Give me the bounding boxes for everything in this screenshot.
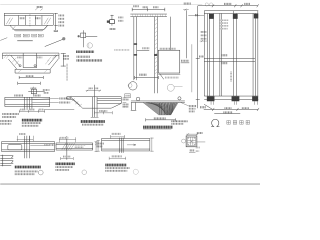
- detail A2 left block: [67, 97, 83, 108]
- elevation E1 slab: [130, 14, 167, 17]
- plan P stubs below bottom wall: [211, 101, 257, 105]
- section S2 bottom band: [15, 69, 50, 73]
- detail K hatch: [143, 103, 178, 115]
- detail B2 top dim: [59, 137, 76, 142]
- sheet bottom border: [0, 183, 260, 185]
- plan P interior text block: [219, 19, 229, 21]
- detail B2 inner texts: [75, 144, 86, 146]
- detail K trough outline: [143, 102, 178, 114]
- detail A2 boxed mark right: [125, 94, 131, 98]
- detail K top lines: [131, 101, 185, 103]
- section S2 top band: [2, 53, 59, 59]
- plan P corner columns bottom: [207, 96, 215, 101]
- elevation E1 leader below plate: [160, 74, 164, 80]
- plan P mid band: [204, 58, 255, 61]
- callout leader ball: [62, 37, 65, 40]
- detail B1 ladder: [0, 155, 13, 167]
- small detail S1a label: [110, 28, 116, 30]
- section S1 weld mark: [17, 40, 33, 42]
- plan P level text left of band: [199, 55, 205, 57]
- detail B3 bottom dim: [109, 157, 126, 160]
- elevation E1 column dim: [135, 76, 159, 79]
- detail A1 center verticals: [24, 97, 32, 110]
- detail A1 beam: [5, 97, 50, 106]
- detail A1 left texts: [2, 113, 19, 115]
- detail A1 bottom dim: [19, 110, 45, 113]
- section S1 boxed dim labels: [15, 34, 44, 37]
- elevation E1 vertical a: [170, 17, 172, 51]
- section S1 panel dividers: [19, 15, 42, 25]
- section S1 centerline: [29, 14, 31, 26]
- elevation E1 slab studs: [133, 14, 166, 17]
- detail B2 hatch: [62, 143, 75, 150]
- elevation E1 left column: [134, 17, 137, 81]
- small detail S2 anchor: [81, 33, 86, 38]
- elevation E1 hatched column: [155, 17, 158, 94]
- section S2 notch: [23, 53, 37, 68]
- detail B3 beam: [102, 138, 150, 151]
- elevation E1 vertical c: [191, 44, 193, 92]
- detail K top circles: [136, 97, 140, 101]
- plan P top wall: [204, 11, 258, 14]
- section S2 label: [76, 51, 94, 54]
- detail B1 top dim: [19, 133, 26, 135]
- section S2 dim 2: [18, 82, 41, 85]
- section S1 panel texts: [20, 17, 25, 19]
- section S1 hatch: [6, 18, 51, 30]
- detail A2 label: [81, 120, 105, 123]
- datum line to plan: [188, 15, 204, 17]
- plan P bottom wall: [204, 96, 258, 99]
- elevation E1 level mark: [181, 60, 189, 62]
- small detail S2 bubble: [87, 43, 92, 48]
- detail B2 right dim: [95, 141, 98, 152]
- detail A1 top texts: [14, 94, 23, 96]
- section S1 top dim text: [37, 6, 43, 8]
- section S2 rebar circles: [19, 65, 21, 67]
- detail B1 body: [2, 142, 55, 152]
- plan P vertical text: [230, 72, 232, 82]
- section S1 trough bottom: [10, 25, 48, 31]
- detail B3 right dim: [150, 138, 153, 152]
- detail A2 bottom dim: [91, 111, 113, 117]
- detail A2 stub above: [94, 85, 96, 97]
- detail A1 lower-left texts: [0, 120, 12, 122]
- detail K left support: [131, 102, 137, 110]
- detail B3 left dim: [97, 140, 100, 151]
- plan P corner columns top: [209, 14, 214, 19]
- faint text row: [114, 49, 129, 51]
- section S2 vertical text column: [66, 64, 68, 81]
- detail C2 dim text: [197, 132, 203, 134]
- callout leader line: [45, 39, 63, 46]
- section S1 right dim chain: [54, 13, 58, 31]
- axis bubbles above plan: [205, 3, 208, 6]
- detail C2 circle mark: [182, 139, 186, 143]
- elevation E1 plate rect: [158, 50, 180, 73]
- detail B2 centerline: [66, 136, 68, 160]
- detail A2 top line: [67, 96, 122, 98]
- detail B3 top dim: [112, 133, 121, 135]
- elevation E1 text above plate: [160, 48, 176, 50]
- detail C2 column section: [186, 136, 197, 147]
- detail A1 leaders: [32, 98, 59, 102]
- section S2 right dim: [61, 53, 66, 66]
- detail K right leader: [181, 103, 189, 106]
- detail C2 label: [190, 149, 195, 151]
- detail B2 bottom dim: [61, 157, 74, 160]
- detail A2 right block: [82, 97, 121, 108]
- elevation E1 section circle: [167, 84, 174, 91]
- section S2 hatch: [4, 54, 58, 73]
- elevation E1 top dim: [132, 8, 165, 12]
- plan P bottom dim 2: [214, 113, 240, 115]
- section S2 band texts: [17, 56, 22, 58]
- detail C2 leader: [197, 141, 205, 143]
- plan P wall verticals: [204, 11, 258, 96]
- detail B2 beam: [56, 143, 93, 150]
- plan P left dim line: [196, 6, 200, 109]
- plan P top dim: [198, 4, 259, 7]
- plan P title: [227, 121, 250, 125]
- detail A2 right dims: [123, 98, 127, 107]
- elevation E1 tie line: [137, 49, 149, 51]
- detail B3 center verticals: [119, 138, 123, 153]
- detail K leader text: [171, 120, 187, 122]
- detail K bottom dim: [146, 118, 176, 121]
- section S2 slopes: [8, 55, 58, 69]
- plan P omega symbol: [211, 119, 219, 126]
- detail K label: [143, 126, 173, 129]
- detail B2 label: [55, 162, 74, 165]
- plan P bottom dim 1: [204, 108, 259, 111]
- callout circle near K: [128, 83, 132, 87]
- elevation E1 vertical b: [185, 10, 187, 58]
- elevation E1 right dim text: [184, 2, 191, 4]
- detail B1 label: [15, 166, 41, 169]
- detail B3 label: [105, 164, 126, 167]
- faint top line: [0, 4, 202, 6]
- break mark left edge: [0, 38, 7, 41]
- ground line right of A1: [44, 109, 75, 111]
- section S1 slab band: [4, 13, 53, 25]
- plan P left dim text stack: [201, 31, 207, 33]
- detail B1 verticals: [24, 136, 29, 159]
- plan P bottom leader: [204, 104, 213, 109]
- detail C2 side texts: [196, 147, 200, 149]
- small detail S3 cross: [28, 87, 45, 97]
- detail A2 center column: [92, 97, 97, 118]
- detail A1 label: [22, 119, 42, 122]
- detail B3 arrow: [127, 144, 136, 146]
- detail B1 leader: [30, 145, 49, 147]
- small detail S1a plate: [110, 20, 115, 24]
- elevation E1 pile circle: [129, 82, 137, 90]
- section S2 dim 1: [19, 76, 43, 79]
